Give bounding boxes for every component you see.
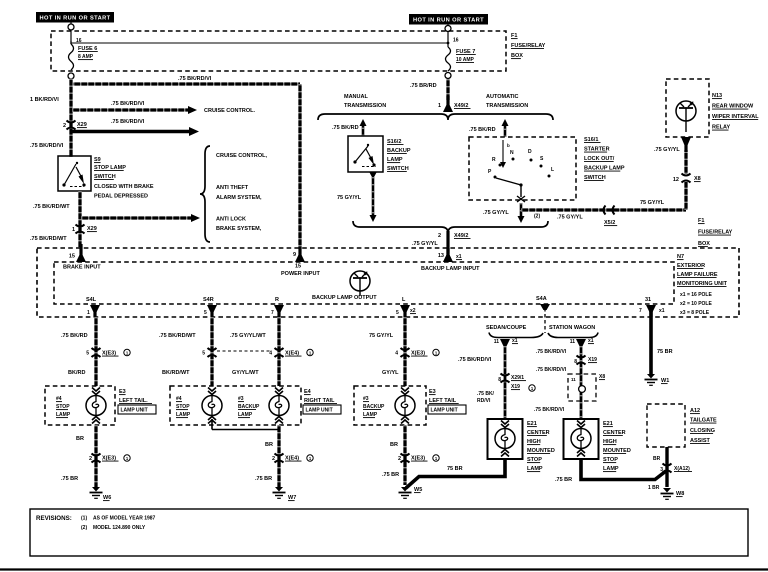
svg-text:MONITORING UNIT: MONITORING UNIT — [677, 281, 728, 287]
svg-text:#3: #3 — [238, 396, 244, 402]
svg-text:4: 4 — [395, 351, 398, 357]
svg-text:X5/2: X5/2 — [604, 220, 615, 226]
svg-text:N: N — [510, 150, 514, 156]
svg-text:BR: BR — [265, 442, 273, 448]
svg-text:2: 2 — [89, 456, 92, 462]
svg-text:ALARM SYSTEM,: ALARM SYSTEM, — [216, 195, 262, 201]
svg-text:BRAKE INPUT: BRAKE INPUT — [63, 265, 101, 271]
svg-text:X(E3): X(E3) — [411, 351, 425, 357]
svg-text:X(E3): X(E3) — [102, 456, 116, 462]
svg-text:E3: E3 — [119, 389, 126, 395]
svg-text:REVISIONS:: REVISIONS: — [36, 515, 72, 522]
svg-text:.75 BK/RD/VI: .75 BK/RD/VI — [111, 119, 145, 125]
svg-text:1 BR: 1 BR — [648, 485, 660, 491]
svg-text:(2): (2) — [534, 214, 540, 220]
svg-text:CENTER: CENTER — [603, 430, 626, 436]
svg-text:W5: W5 — [414, 487, 422, 493]
svg-text:X29: X29 — [77, 122, 87, 128]
svg-text:.75 BR: .75 BR — [382, 472, 399, 478]
svg-text:STOP: STOP — [527, 457, 542, 463]
svg-text:POWER INPUT: POWER INPUT — [281, 271, 320, 277]
svg-text:GY/YL/WT: GY/YL/WT — [232, 370, 259, 376]
svg-text:LEFT TAIL: LEFT TAIL — [429, 398, 457, 404]
svg-text:12: 12 — [673, 177, 679, 183]
svg-text:W1: W1 — [661, 378, 669, 384]
svg-text:HOT IN RUN OR START: HOT IN RUN OR START — [39, 15, 110, 21]
svg-text:7: 7 — [271, 310, 274, 316]
svg-text:75 GY/YL: 75 GY/YL — [337, 195, 362, 201]
svg-text:BACKUP: BACKUP — [387, 148, 411, 154]
svg-text:PEDAL DEPRESSED: PEDAL DEPRESSED — [94, 194, 148, 200]
svg-text:GY/YL: GY/YL — [382, 370, 399, 376]
svg-text:x2 = 10 POLE: x2 = 10 POLE — [680, 301, 712, 307]
svg-text:LEFT TAIL.: LEFT TAIL. — [119, 398, 148, 404]
svg-text:ANTI THEFT: ANTI THEFT — [216, 185, 249, 191]
svg-text:.75 BK/RD/VI: .75 BK/RD/VI — [30, 143, 64, 149]
svg-text:STOP LAMP: STOP LAMP — [94, 165, 126, 171]
svg-text:R: R — [492, 157, 496, 163]
svg-text:8: 8 — [574, 359, 577, 365]
svg-text:LAMP: LAMP — [363, 412, 378, 418]
svg-text:E21: E21 — [527, 421, 537, 427]
svg-text:W7: W7 — [288, 495, 296, 501]
svg-text:MOUNTED: MOUNTED — [527, 448, 555, 454]
svg-text:RELAY: RELAY — [712, 125, 730, 131]
svg-text:HOT IN RUN OR START: HOT IN RUN OR START — [413, 17, 484, 23]
svg-text:STOP: STOP — [603, 457, 618, 463]
svg-text:2: 2 — [398, 456, 401, 462]
svg-text:S16/2: S16/2 — [387, 139, 401, 145]
svg-text:BK/RD/WT: BK/RD/WT — [162, 370, 190, 376]
svg-text:x1: x1 — [659, 308, 665, 314]
svg-text:N13: N13 — [712, 93, 722, 99]
svg-text:.75 BK/RD/VI: .75 BK/RD/VI — [536, 367, 567, 373]
svg-text:.75 BK/RD: .75 BK/RD — [469, 127, 496, 133]
svg-text:9: 9 — [293, 252, 296, 258]
svg-text:AS OF MODEL YEAR 1987: AS OF MODEL YEAR 1987 — [93, 516, 156, 522]
svg-text:X8: X8 — [694, 176, 701, 182]
svg-text:2: 2 — [63, 123, 66, 129]
svg-text:5: 5 — [86, 351, 89, 357]
svg-text:LAMP: LAMP — [56, 412, 71, 418]
svg-text:2: 2 — [438, 233, 441, 239]
svg-text:STARTER: STARTER — [584, 147, 610, 153]
svg-text:S4A: S4A — [536, 296, 547, 302]
svg-text:SWITCH: SWITCH — [387, 166, 409, 172]
svg-text:S4L: S4L — [86, 297, 97, 303]
svg-text:A12: A12 — [690, 408, 700, 414]
svg-text:BRAKE SYSTEM,: BRAKE SYSTEM, — [216, 226, 262, 232]
svg-text:X29/1: X29/1 — [511, 375, 524, 381]
svg-text:BR: BR — [390, 442, 398, 448]
svg-text:HIGH: HIGH — [603, 439, 617, 445]
svg-text:.75 BK/RD/WT: .75 BK/RD/WT — [159, 333, 196, 339]
svg-text:MANUAL: MANUAL — [344, 94, 368, 100]
svg-text:BACKUP LAMP OUTPUT: BACKUP LAMP OUTPUT — [312, 295, 377, 301]
svg-text:S9: S9 — [94, 157, 101, 163]
svg-text:CENTER: CENTER — [527, 430, 550, 436]
svg-text:STATION WAGON: STATION WAGON — [549, 325, 595, 331]
svg-text:BACKUP LAMP: BACKUP LAMP — [584, 166, 625, 172]
svg-text:(1): (1) — [81, 516, 87, 522]
svg-text:LAMP UNIT: LAMP UNIT — [121, 408, 148, 414]
svg-text:.75 GY/YL: .75 GY/YL — [412, 241, 438, 247]
svg-text:EXTERIOR: EXTERIOR — [677, 263, 705, 269]
svg-text:X(E3): X(E3) — [102, 351, 116, 357]
svg-text:.75 BK/RD/VI: .75 BK/RD/VI — [178, 76, 212, 82]
svg-text:LAMP UNIT: LAMP UNIT — [431, 408, 458, 414]
svg-text:R: R — [275, 297, 279, 303]
svg-text:1: 1 — [438, 103, 441, 109]
svg-text:BR: BR — [653, 456, 661, 462]
svg-text:CLOSED WITH BRAKE: CLOSED WITH BRAKE — [94, 184, 154, 190]
svg-text:FUSE 6: FUSE 6 — [78, 46, 97, 52]
svg-text:x2: x2 — [410, 308, 416, 314]
svg-text:75 GY/YL: 75 GY/YL — [369, 333, 394, 339]
svg-text:CLOSING: CLOSING — [690, 428, 715, 434]
svg-text:.75 BR: .75 BR — [255, 476, 272, 482]
svg-text:X19: X19 — [588, 357, 597, 363]
svg-text:E21: E21 — [603, 421, 613, 427]
svg-text:REAR WINDOW: REAR WINDOW — [712, 104, 754, 110]
svg-text:LAMP FAILURE: LAMP FAILURE — [677, 272, 718, 278]
svg-text:.75 BK/RD: .75 BK/RD — [332, 125, 359, 131]
svg-text:.75 BK/RD/VI: .75 BK/RD/VI — [536, 349, 567, 355]
svg-text:x1: x1 — [512, 338, 518, 344]
svg-text:LAMP: LAMP — [176, 412, 191, 418]
svg-text:75 GY/YL: 75 GY/YL — [640, 200, 665, 206]
svg-text:11: 11 — [570, 339, 576, 345]
svg-text:5: 5 — [396, 310, 399, 316]
svg-text:1 BK/RD/VI: 1 BK/RD/VI — [30, 97, 59, 103]
svg-text:LAMP: LAMP — [527, 466, 543, 472]
svg-text:LAMP: LAMP — [603, 466, 619, 472]
svg-text:8: 8 — [498, 377, 501, 383]
svg-text:.75 GY/YL: .75 GY/YL — [654, 147, 680, 153]
svg-text:.75 BK/RD/VI: .75 BK/RD/VI — [111, 101, 145, 107]
svg-text:13: 13 — [438, 253, 444, 259]
svg-text:15: 15 — [295, 264, 301, 270]
svg-text:4: 4 — [269, 351, 272, 357]
svg-text:S4R: S4R — [203, 297, 214, 303]
svg-text:.75 BK/RD/WT: .75 BK/RD/WT — [33, 204, 70, 210]
svg-text:X49/2: X49/2 — [454, 233, 468, 239]
svg-text:7: 7 — [639, 308, 642, 314]
svg-text:.75 BR: .75 BR — [555, 477, 572, 483]
svg-text:X8: X8 — [599, 374, 605, 380]
svg-text:16: 16 — [453, 38, 459, 44]
svg-text:.75 BR/RD: .75 BR/RD — [410, 83, 437, 89]
svg-text:AUTOMATIC: AUTOMATIC — [486, 94, 519, 100]
svg-text:15: 15 — [69, 254, 75, 260]
svg-text:x3 = 8 POLE: x3 = 8 POLE — [680, 310, 710, 316]
svg-text:SEDAN/COUPE: SEDAN/COUPE — [486, 325, 527, 331]
svg-text:HIGH: HIGH — [527, 439, 541, 445]
svg-text:MOUNTED: MOUNTED — [603, 448, 631, 454]
svg-text:.75 BK/RD/VI: .75 BK/RD/VI — [458, 357, 492, 363]
svg-text:D: D — [528, 149, 532, 155]
svg-text:.75 GY/YL: .75 GY/YL — [557, 215, 583, 221]
svg-text:x1: x1 — [456, 254, 462, 260]
svg-text:b: b — [507, 143, 510, 148]
svg-text:S16/1: S16/1 — [584, 137, 598, 143]
svg-text:.75 BK/RD/WT: .75 BK/RD/WT — [30, 236, 67, 242]
svg-text:#4: #4 — [176, 396, 182, 402]
svg-text:TAILGATE: TAILGATE — [690, 418, 717, 424]
svg-text:BOX: BOX — [698, 241, 710, 247]
svg-text:X49/2: X49/2 — [454, 103, 468, 109]
svg-text:.75 BK/: .75 BK/ — [477, 391, 495, 397]
svg-text:5: 5 — [202, 351, 205, 357]
svg-text:E3: E3 — [429, 389, 436, 395]
svg-text:75 BR: 75 BR — [657, 349, 673, 355]
svg-text:BK/RD: BK/RD — [68, 370, 85, 376]
svg-text:2: 2 — [272, 456, 275, 462]
svg-text:.75 BK/RD: .75 BK/RD — [61, 333, 88, 339]
svg-text:BACKUP: BACKUP — [238, 404, 260, 410]
svg-text:.75 BR: .75 BR — [61, 476, 78, 482]
svg-text:MODEL 124.890 ONLY: MODEL 124.890 ONLY — [93, 525, 146, 531]
svg-text:x1: x1 — [588, 338, 594, 344]
svg-text:E4: E4 — [304, 389, 312, 395]
svg-text:BACKUP LAMP INPUT: BACKUP LAMP INPUT — [421, 266, 480, 272]
svg-text:75 BR: 75 BR — [447, 466, 463, 472]
svg-text:F1: F1 — [698, 218, 704, 224]
svg-text:L: L — [551, 167, 554, 173]
svg-text:BOX: BOX — [511, 53, 523, 59]
svg-text:W8: W8 — [676, 491, 684, 497]
svg-text:1: 1 — [87, 310, 90, 316]
svg-text:ANTI LOCK: ANTI LOCK — [216, 217, 246, 223]
svg-text:RIGHT TAIL: RIGHT TAIL — [304, 398, 335, 404]
svg-text:SWITCH: SWITCH — [584, 175, 606, 181]
svg-text:#3: #3 — [363, 396, 369, 402]
svg-text:F1: F1 — [511, 33, 517, 39]
svg-text:SWITCH: SWITCH — [94, 174, 116, 180]
svg-text:N7: N7 — [677, 254, 684, 260]
svg-text:X29: X29 — [87, 226, 97, 232]
svg-text:10 AMP: 10 AMP — [456, 57, 475, 63]
svg-text:11: 11 — [494, 339, 500, 345]
svg-text:X19: X19 — [511, 384, 520, 390]
svg-text:ASSIST: ASSIST — [690, 438, 711, 444]
svg-text:FUSE/RELAY: FUSE/RELAY — [511, 43, 546, 49]
svg-text:FUSE 7: FUSE 7 — [456, 49, 475, 55]
svg-text:LAMP: LAMP — [387, 157, 403, 163]
svg-text:STOP: STOP — [176, 404, 190, 410]
svg-text:LOCK OUT/: LOCK OUT/ — [584, 156, 615, 162]
svg-text:(2): (2) — [81, 525, 87, 531]
svg-text:TRANSMISSION: TRANSMISSION — [486, 103, 528, 109]
svg-text:31: 31 — [645, 297, 651, 303]
svg-text:X(A12): X(A12) — [674, 466, 690, 472]
svg-text:.75 GY/YL/WT: .75 GY/YL/WT — [230, 333, 266, 339]
svg-text:8 AMP: 8 AMP — [78, 54, 94, 60]
svg-text:RD/VI: RD/VI — [477, 398, 491, 404]
svg-text:.75 BK/RD/VI: .75 BK/RD/VI — [534, 407, 565, 413]
svg-text:BACKUP: BACKUP — [363, 404, 385, 410]
svg-text:.75 GY/YL: .75 GY/YL — [483, 210, 509, 216]
svg-text:X(E4): X(E4) — [285, 456, 299, 462]
svg-text:CRUISE CONTROL,: CRUISE CONTROL, — [216, 153, 268, 159]
svg-text:#4: #4 — [56, 396, 62, 402]
svg-text:X(E4): X(E4) — [285, 351, 299, 357]
svg-text:LAMP: LAMP — [238, 412, 253, 418]
svg-text:3: 3 — [660, 467, 663, 473]
svg-text:STOP: STOP — [56, 404, 70, 410]
svg-text:W6: W6 — [103, 495, 111, 501]
svg-text:BR: BR — [76, 436, 84, 442]
svg-text:5: 5 — [204, 310, 207, 316]
svg-text:FUSE/RELAY: FUSE/RELAY — [698, 230, 733, 236]
svg-text:x1 = 16 POLE: x1 = 16 POLE — [680, 292, 712, 298]
svg-text:11: 11 — [571, 377, 576, 382]
svg-text:TRANSMISSION: TRANSMISSION — [344, 103, 386, 109]
svg-text:1: 1 — [72, 227, 75, 233]
svg-text:LAMP UNIT: LAMP UNIT — [306, 408, 333, 414]
svg-text:CRUISE CONTROL.: CRUISE CONTROL. — [204, 108, 256, 114]
svg-text:X(E3): X(E3) — [411, 456, 425, 462]
svg-text:WIPER INTERVAL: WIPER INTERVAL — [712, 114, 759, 120]
